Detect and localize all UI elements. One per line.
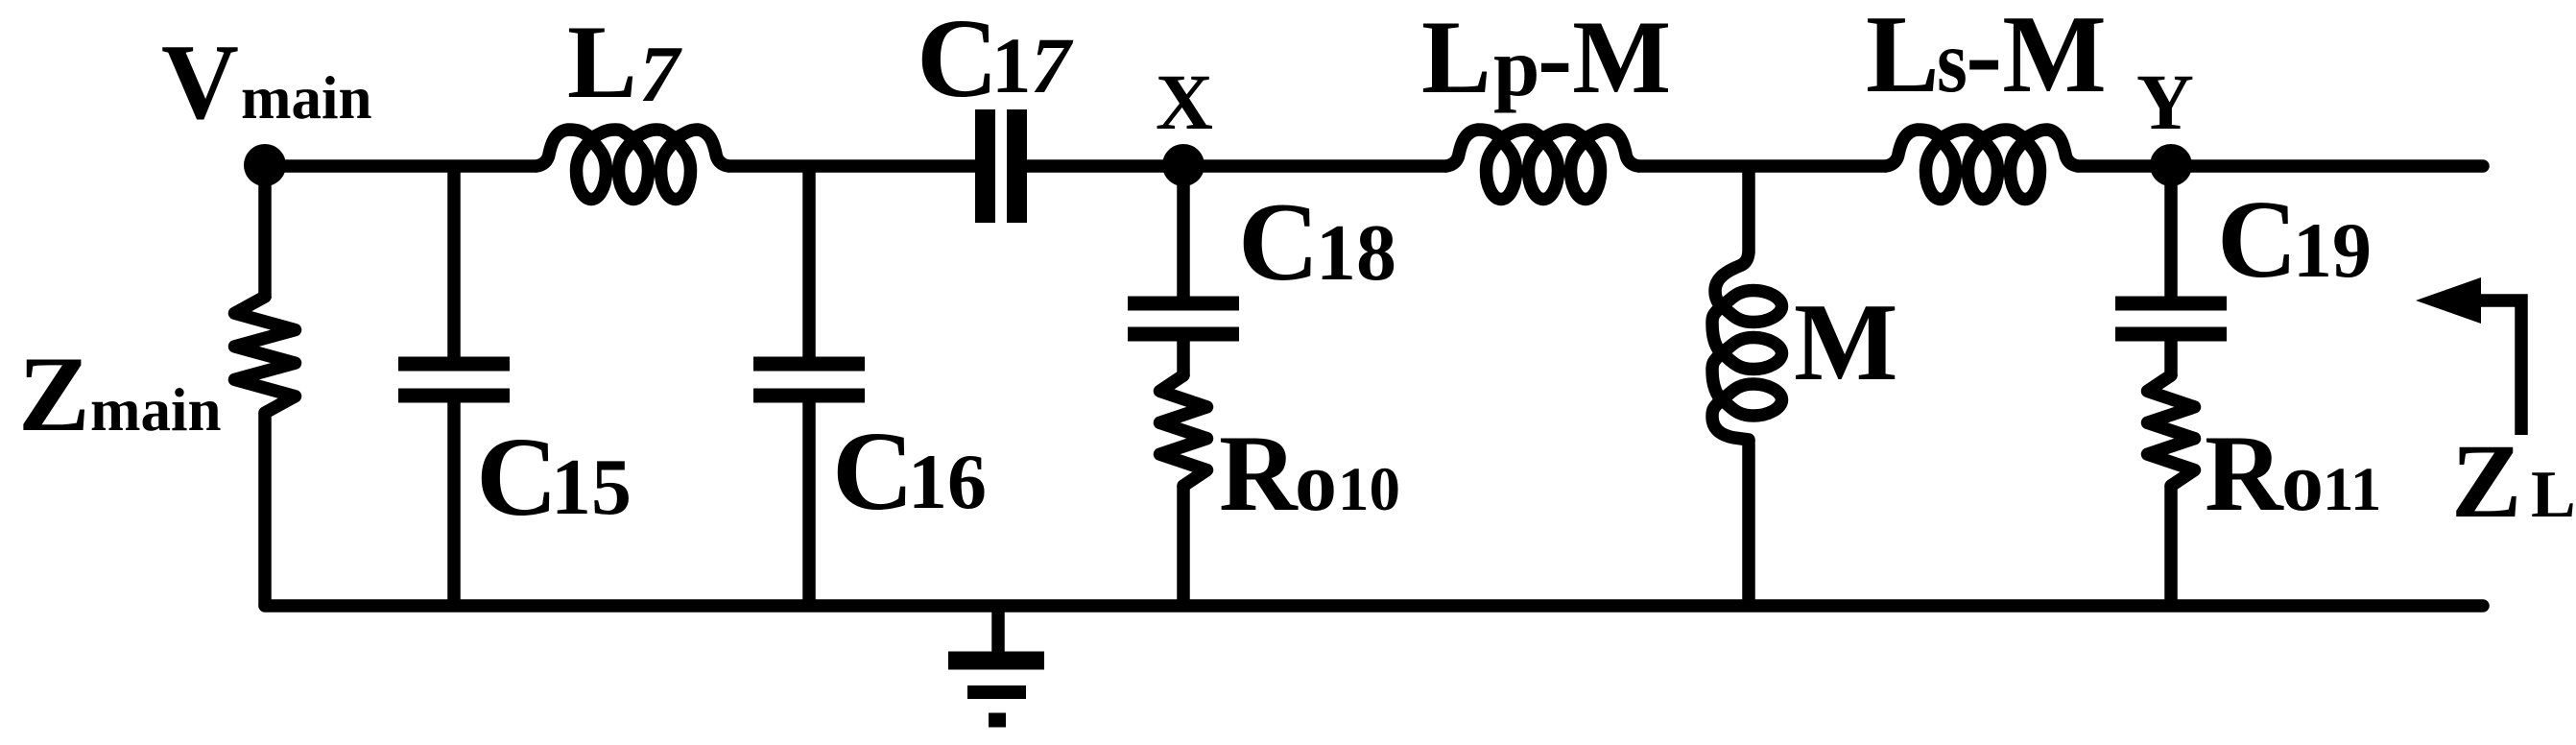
svg-text:R: R [2205,414,2284,534]
svg-text:Z: Z [18,335,90,454]
wire: Vmain node down to Zmain [258,165,272,299]
label C19 [2217,179,2372,301]
wire: C19 to Ro11 [2164,341,2178,376]
ground [948,606,1044,720]
svg-text:R: R [1219,414,1299,534]
label C15 [476,414,632,540]
ZL arrow [2416,277,2521,435]
capacitor C15 [398,364,510,396]
svg-text:C: C [2217,179,2298,301]
capacitor C16 [753,364,865,396]
svg-text:V: V [161,23,239,142]
wire: M coil to bottom rail [1742,440,1755,606]
node Y [2150,144,2192,186]
node X [1162,144,1205,186]
resistor Zmain [235,297,296,413]
svg-text:L: L [1421,0,1491,115]
inductor Lp-M [1446,130,1638,200]
svg-text:X: X [1156,58,1213,146]
svg-text:19: 19 [2293,206,2372,294]
svg-text:M: M [1794,281,1898,403]
svg-text:18: 18 [1316,208,1396,298]
svg-text:C: C [1238,180,1320,304]
inductor Ls-M [1886,130,2078,200]
svg-text:10: 10 [1338,455,1400,524]
wire: Ro11 to bottom rail [2164,486,2178,606]
capacitor C19 [2115,303,2227,334]
resistor Ro11 [2148,375,2195,486]
label ZL [2451,422,2576,540]
wire: top rail down to C15 [447,166,461,357]
wire: C16 to bottom rail [802,402,816,606]
label Lp-M [1421,0,1671,115]
wire: C18 to Ro10 [1177,341,1190,376]
capacitor C17 [986,109,1017,223]
wire: top rail segment Vmain to L7 [265,159,537,173]
label Ro11 [2205,414,2381,534]
svg-text:o: o [1295,436,1337,529]
label C17 [917,0,1074,121]
svg-text:main: main [241,64,372,132]
svg-text:L: L [2531,458,2576,532]
wire: bottom ground rail [265,599,2483,613]
svg-text:p: p [1493,20,1539,113]
wire: Lp-M to Ls-M through M junction [1638,159,1886,173]
svg-text:s: s [1937,12,1968,110]
label Ls-M [1866,0,2107,115]
wire: L7 to C17 [728,159,975,173]
svg-text:L: L [567,4,637,120]
svg-text:-M: -M [1538,0,1671,115]
svg-text:11: 11 [2323,455,2381,524]
wire: top rail down to M coil [1742,166,1755,252]
svg-text:16: 16 [908,438,987,525]
label Ro10 [1219,414,1400,534]
capacitor C18 [1128,303,1239,334]
wire: Ls-M to right end through node Y [2078,159,2483,173]
svg-text:o: o [2281,436,2324,529]
svg-text:15: 15 [551,443,632,532]
inductor M [1712,252,1782,440]
resistor Ro10 [1160,375,1207,486]
inductor L7 [537,130,728,200]
svg-text:C: C [832,408,914,534]
svg-text:C: C [917,0,998,121]
wire: C17 to Lp-M through node X [1027,159,1446,173]
wire: Ro10 to bottom rail [1177,486,1190,606]
wire: node Y down to C19 [2164,165,2178,297]
wire: C15 to bottom rail [447,402,461,606]
svg-text:Z: Z [2451,422,2521,540]
wire: Zmain to bottom rail [258,413,272,606]
node Vmain [244,144,286,186]
label C18 [1238,180,1396,304]
label Vmain [161,23,372,142]
svg-text:7: 7 [1031,21,1074,109]
label Zmain [18,335,222,454]
svg-text:Y: Y [2136,58,2194,146]
svg-text:1: 1 [991,21,1032,109]
wire: top rail down to C16 [802,166,816,357]
wire: node X down to C18 [1177,165,1190,297]
label C16 [832,408,987,534]
label L7 [567,4,682,120]
svg-text:-M: -M [1966,0,2107,115]
svg-text:main: main [90,376,222,444]
svg-text:L: L [1866,0,1940,115]
svg-text:7: 7 [639,30,682,119]
svg-text:C: C [476,414,558,540]
